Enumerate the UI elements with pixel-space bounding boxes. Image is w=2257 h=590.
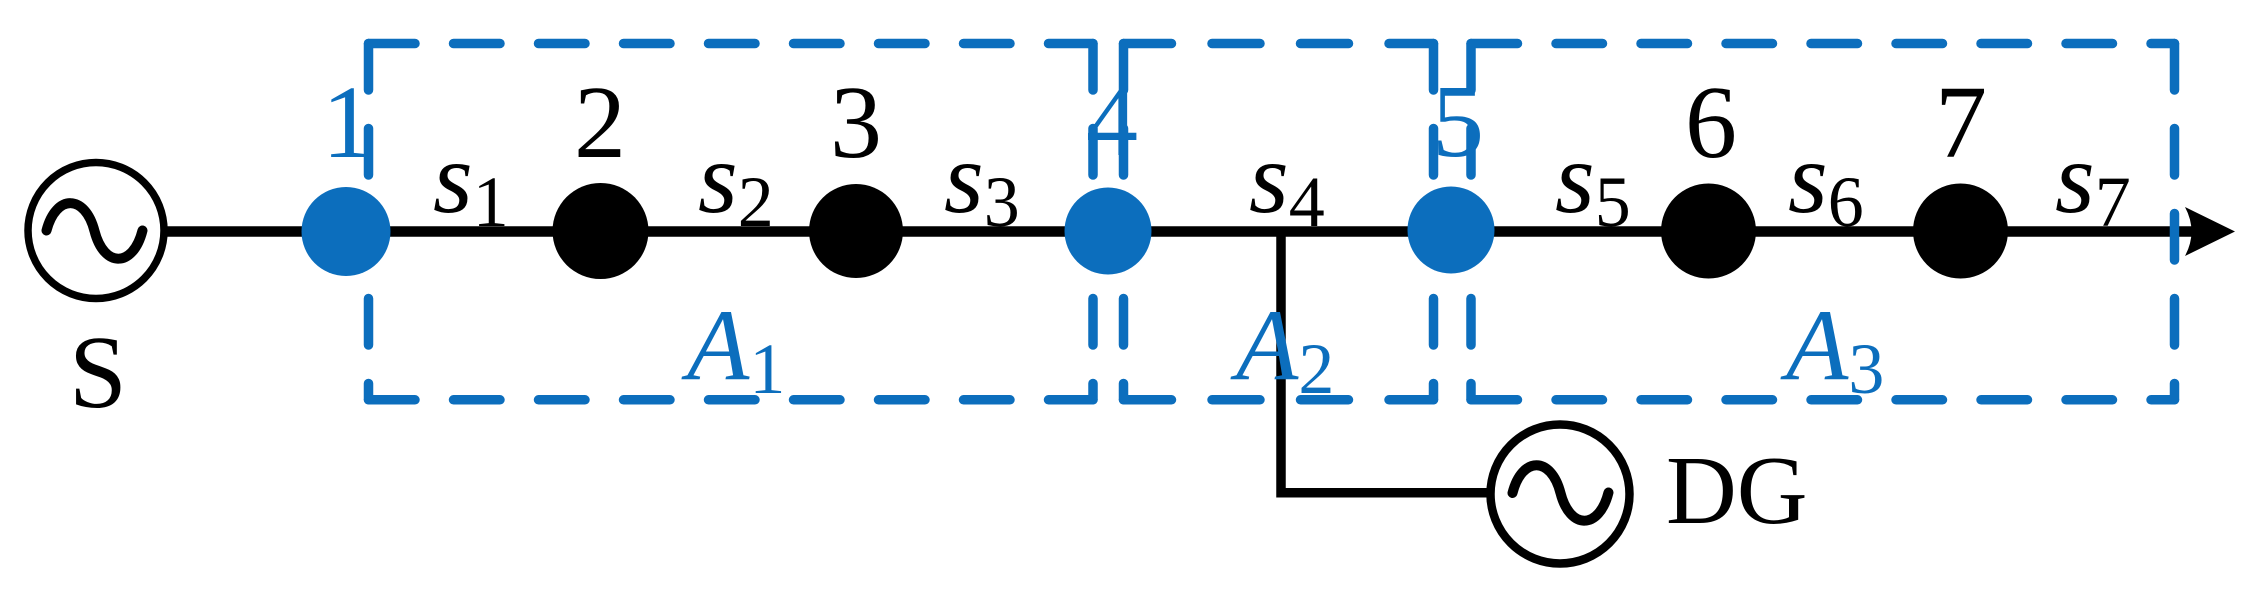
- DG generator circle: [1491, 425, 1630, 564]
- svg-text:A1: A1: [681, 289, 785, 409]
- wire branch to DG: [1281, 231, 1491, 493]
- area A3 dashed box: [1471, 44, 2175, 400]
- wire A1 right edge: [1088, 44, 1098, 400]
- svg-text:1: 1: [322, 65, 374, 180]
- wire A2 bottom edge: [1124, 395, 1434, 405]
- area A1 dashed box: [369, 44, 1094, 400]
- wire A1 left edge: [364, 44, 374, 400]
- svg-text:6: 6: [1685, 65, 1737, 180]
- node 5 (blue): [1408, 187, 1495, 274]
- svg-text:S: S: [69, 315, 127, 430]
- svg-text:A3: A3: [1780, 289, 1884, 409]
- wire A2 left edge: [1119, 44, 1129, 400]
- wire A2 top edge: [1124, 39, 1434, 49]
- wire A1 top edge: [369, 39, 1094, 49]
- wire A3 left edge: [1466, 44, 1476, 400]
- svg-text:s6: s6: [1788, 122, 1864, 242]
- node 2: [553, 183, 649, 279]
- node 3: [809, 184, 903, 278]
- svg-text:s7: s7: [2055, 122, 2131, 242]
- svg-text:5: 5: [1432, 64, 1484, 179]
- node 7: [1913, 184, 2008, 279]
- wire A1 bottom edge: [369, 395, 1094, 405]
- arrowhead feeder end: [2185, 207, 2235, 256]
- svg-text:A2: A2: [1230, 289, 1334, 409]
- svg-text:s1: s1: [433, 122, 509, 242]
- wire A3 right edge: [2170, 44, 2180, 400]
- wire A3 bottom edge: [1471, 395, 2175, 405]
- source S sine symbol: [47, 203, 143, 259]
- svg-text:s5: s5: [1555, 122, 1631, 242]
- svg-text:DG: DG: [1666, 437, 1808, 545]
- svg-text:s3: s3: [944, 122, 1020, 242]
- svg-text:7: 7: [1935, 65, 1987, 180]
- svg-text:2: 2: [574, 65, 626, 180]
- wire A3 top edge: [1471, 39, 2175, 49]
- area A2 dashed box: [1124, 44, 1434, 400]
- svg-text:3: 3: [830, 65, 882, 180]
- source S generator circle: [28, 163, 164, 299]
- node 1 (blue): [302, 187, 391, 276]
- wire main feeder line: [163, 226, 2200, 237]
- svg-text:s2: s2: [698, 122, 774, 242]
- wire A2 right edge: [1429, 44, 1439, 400]
- node 6: [1661, 184, 1756, 279]
- svg-text:4: 4: [1086, 63, 1138, 178]
- node 4 (blue): [1065, 188, 1152, 275]
- DG sine symbol: [1513, 465, 1609, 520]
- svg-text:s4: s4: [1249, 122, 1325, 242]
